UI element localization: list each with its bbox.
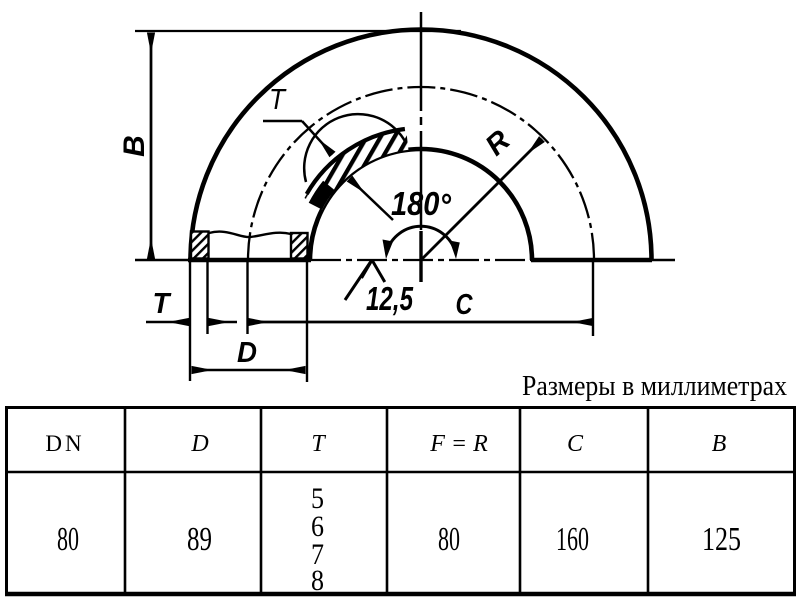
svg-text:T: T	[153, 288, 172, 320]
D dimension line	[192, 369, 249, 372]
svg-text:C: C	[456, 289, 474, 321]
B dimension top extension line	[135, 30, 461, 32]
baseline: horizontal centerline dash-dot	[311, 259, 532, 261]
svg-text:D: D	[237, 337, 257, 369]
180 degree arc with arrows	[387, 226, 456, 252]
svg-text:160: 160	[556, 521, 589, 558]
T dimension left arrow segment	[146, 321, 189, 324]
svg-text:T: T	[269, 84, 287, 116]
baseline: right extension	[652, 259, 675, 261]
D left extension	[189, 262, 191, 381]
svg-text:B: B	[118, 135, 151, 157]
table header separator	[6, 471, 794, 474]
svg-text:80: 80	[57, 521, 79, 558]
T leader line	[263, 120, 302, 123]
center tick	[419, 231, 422, 282]
svg-text:80: 80	[438, 521, 460, 558]
table column lines	[125, 407, 648, 593]
R radius line with arrow	[421, 139, 542, 260]
break-line bubble	[304, 114, 406, 182]
svg-text:12,5: 12,5	[366, 280, 413, 317]
B dimension line with arrows	[150, 33, 153, 260]
T extension line	[206, 262, 208, 334]
table bottom border (thick)	[5, 592, 796, 597]
vertical centerline	[420, 12, 423, 231]
svg-text:F = R: F = R	[429, 431, 488, 457]
svg-text:DN: DN	[45, 431, 84, 456]
svg-text:89: 89	[187, 521, 212, 558]
C dimension line	[248, 321, 593, 324]
left end wall hatch (outer wall)	[191, 232, 209, 259]
C right extension	[592, 262, 594, 336]
break wavy line across bore	[209, 232, 291, 237]
svg-text:180°: 180°	[391, 185, 452, 224]
svg-text:125: 125	[702, 521, 741, 558]
left end wall hatch (inner wall)	[291, 233, 308, 259]
svg-text:T: T	[311, 431, 326, 457]
broken-out section: solid wedge left	[309, 181, 335, 210]
broken-out section hatch band	[304, 129, 408, 210]
C left extension	[246, 262, 248, 334]
svg-text:8: 8	[311, 564, 324, 597]
T leader arrow	[302, 121, 333, 155]
baseline: right end face (thick)	[531, 258, 652, 263]
D right extension	[306, 262, 308, 382]
wall thickness arrow from inside	[350, 179, 394, 221]
table outer border	[7, 408, 795, 594]
12,5 arrow legs	[362, 260, 385, 282]
outer arc of bend	[191, 29, 652, 260]
svg-text:C: C	[567, 431, 584, 457]
baseline: left end face (thick)	[188, 258, 311, 263]
inner arc of bend	[310, 149, 532, 260]
12,5 leader line	[345, 261, 372, 301]
T dimension right arrow segment	[209, 321, 238, 324]
wall outer-surface arc (thick)	[307, 129, 405, 194]
baseline: left extension	[135, 259, 190, 261]
svg-text:Размеры в миллиметрах: Размеры в миллиметрах	[522, 370, 787, 402]
svg-text:B: B	[712, 431, 727, 457]
pipe centerline arc (dash-dot)	[248, 87, 594, 260]
svg-text:D: D	[190, 431, 208, 457]
